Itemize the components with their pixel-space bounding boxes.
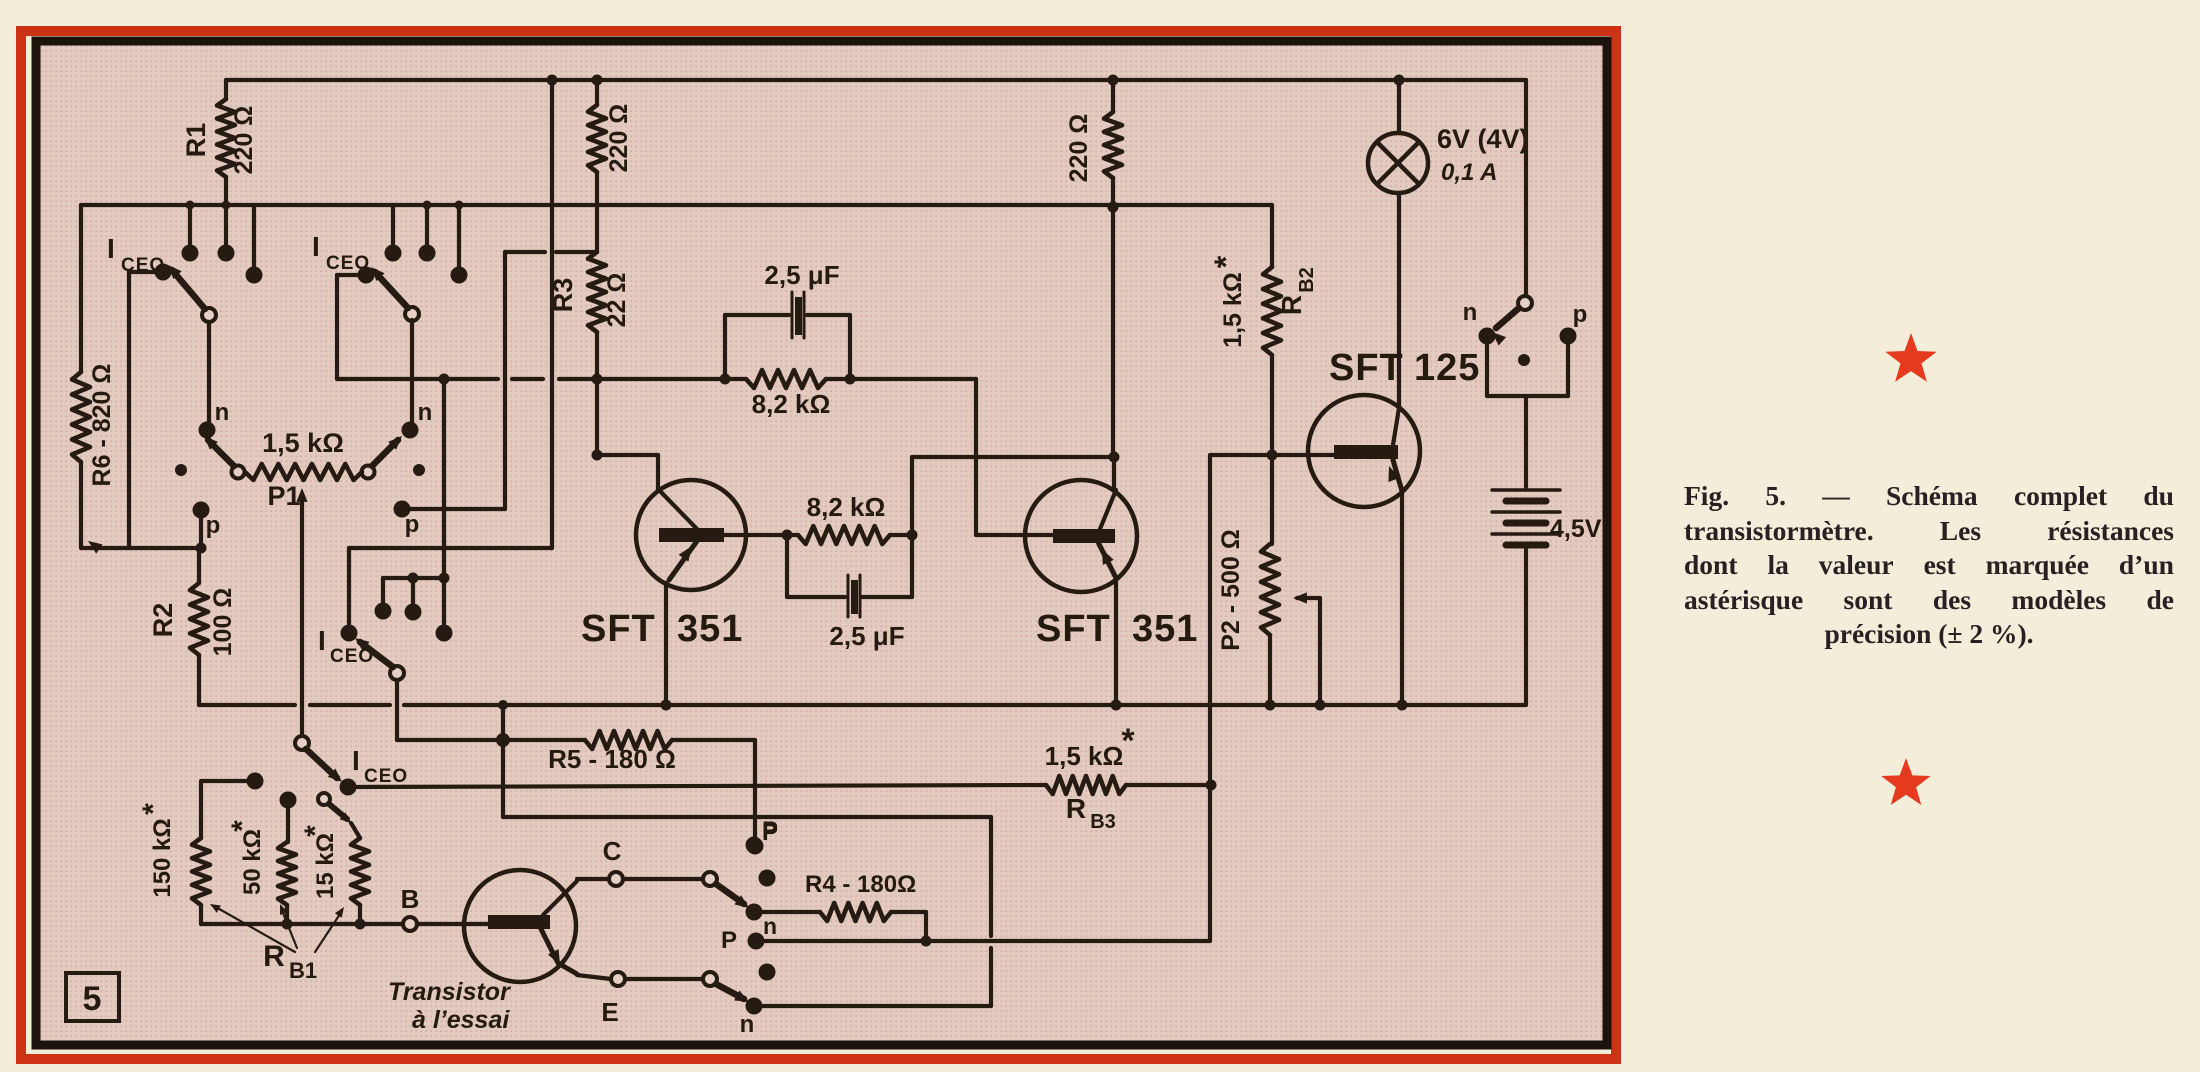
wire 220-2 top bbox=[595, 80, 599, 105]
wire x1211 riser bbox=[1208, 455, 1212, 941]
transistor SFT 351 second bbox=[1112, 457, 1116, 491]
arrowhead ICEO-4 bbox=[328, 769, 342, 783]
node T1 collector bbox=[592, 450, 603, 461]
svg-text:*: * bbox=[1121, 722, 1135, 760]
wire R6 bottom bbox=[79, 462, 83, 548]
svg-text:B1: B1 bbox=[289, 958, 317, 983]
node y457/T2 collector bbox=[1109, 452, 1120, 463]
halftone paper panel bbox=[39, 44, 1605, 1043]
resistor R6 820 ohm bbox=[72, 372, 90, 462]
node cap branch left bbox=[720, 374, 731, 385]
lamp 6V 0.1A bbox=[1397, 80, 1401, 133]
wire n row to x991 bbox=[754, 1004, 991, 1008]
contact dot c bbox=[436, 625, 453, 642]
figure number box 5 bbox=[66, 973, 119, 1021]
switch pivot ICEO-2 bbox=[405, 307, 419, 321]
svg-text:100 Ω: 100 Ω bbox=[209, 588, 237, 657]
wire 150k bottom bbox=[199, 905, 203, 924]
wire P2 bottom bbox=[1268, 635, 1272, 705]
resistor R1 220 ohm bbox=[217, 99, 235, 177]
node stud on rail bbox=[222, 201, 231, 210]
wire pivot stem 2 bbox=[410, 320, 414, 424]
contact dot bbox=[419, 245, 436, 262]
node RB2/P2/base bbox=[1267, 450, 1278, 461]
svg-text:SFT: SFT bbox=[1329, 347, 1404, 389]
node T2 emitter rail bbox=[1111, 700, 1122, 711]
transistor SFT 351 first bbox=[597, 453, 658, 457]
node P2 wiper rail bbox=[1315, 700, 1326, 711]
resistor 220 ohm right bbox=[1104, 112, 1122, 178]
wire P2 wiper down bbox=[1318, 598, 1322, 705]
svg-text:SFT: SFT bbox=[1036, 608, 1111, 650]
capacitor 2.5uF first branch bbox=[723, 315, 727, 379]
svg-text:R: R bbox=[1066, 793, 1086, 824]
wire T1 emitter down bbox=[664, 583, 668, 705]
wire y457 cross-coupling bbox=[912, 455, 1114, 459]
svg-text:CEO: CEO bbox=[330, 646, 374, 667]
svg-text:6V (4V): 6V (4V) bbox=[1437, 124, 1529, 154]
wire C to switch bbox=[623, 877, 703, 881]
contact dot bbox=[218, 245, 235, 262]
contact dot right spare bbox=[413, 464, 425, 476]
wire R1 top bbox=[224, 80, 228, 99]
switch pivot E bbox=[703, 972, 717, 986]
svg-text:n: n bbox=[1463, 299, 1478, 326]
lamp cross a bbox=[1377, 142, 1419, 184]
switch arm np bbox=[1496, 308, 1519, 328]
wire to C terminal bbox=[577, 877, 609, 881]
node rail1 lamp bbox=[1394, 75, 1405, 86]
wire x976 to T2 base bbox=[974, 379, 978, 535]
svg-text:R1: R1 bbox=[181, 123, 211, 158]
svg-text:15 kΩ: 15 kΩ bbox=[312, 833, 339, 899]
wire R6 bottom horizontal bbox=[81, 546, 201, 550]
red star top bbox=[1885, 333, 1936, 382]
arrowhead arm E bbox=[734, 991, 749, 1003]
switch arm B-right bbox=[372, 440, 398, 466]
svg-text:220 Ω: 220 Ω bbox=[1065, 114, 1093, 183]
switch arm ICEO-1 bbox=[172, 270, 205, 309]
leader arrow 50k bbox=[280, 904, 288, 915]
node cap branch right bbox=[845, 374, 856, 385]
svg-text:I: I bbox=[318, 625, 326, 656]
wire RB3 right bbox=[1126, 783, 1211, 787]
contact dot bbox=[451, 267, 468, 284]
switch arm RB1 bbox=[329, 804, 347, 819]
svg-text:5: 5 bbox=[83, 980, 102, 1018]
wire RB2 top bbox=[1270, 205, 1274, 267]
svg-text:C: C bbox=[603, 836, 622, 866]
svg-text:à l’essai: à l’essai bbox=[412, 1006, 510, 1034]
resistor 15k RB1 bbox=[351, 838, 369, 905]
terminal E bbox=[611, 972, 625, 986]
svg-text:B3: B3 bbox=[1090, 811, 1116, 833]
resistor 8.2k second bbox=[798, 526, 890, 544]
contact dot left spare bbox=[175, 464, 187, 476]
svg-text:n: n bbox=[740, 1011, 755, 1038]
node rail1 x1113 bbox=[1108, 75, 1119, 86]
resistor RB2 1.5k bbox=[1263, 267, 1281, 355]
wire y379 cross-coupling bbox=[337, 377, 498, 381]
wiper arrow P2 bbox=[1293, 592, 1307, 603]
wire to E terminal bbox=[577, 975, 611, 979]
contact dot 50k bbox=[280, 792, 297, 809]
svg-text:p: p bbox=[206, 512, 221, 539]
wire T2 base bbox=[976, 533, 1056, 537]
svg-text:351: 351 bbox=[1132, 608, 1198, 650]
wire n to R4 bbox=[754, 910, 820, 914]
arrowhead ICEO-1 bbox=[168, 265, 182, 279]
wire stud b bbox=[411, 578, 415, 606]
terminal C bbox=[609, 872, 623, 886]
wire second rail bbox=[81, 203, 1272, 207]
wire 15k bottom bbox=[358, 905, 362, 924]
wire n bracket bbox=[1485, 342, 1489, 396]
contact dot a bbox=[375, 603, 392, 620]
svg-text:p: p bbox=[1573, 301, 1588, 328]
contact dot bbox=[385, 245, 402, 262]
wire y252 to R3 b bbox=[556, 250, 597, 254]
collector line test transistor bbox=[543, 881, 577, 915]
svg-text:B: B bbox=[401, 884, 420, 914]
node R4 on P row bbox=[921, 936, 932, 947]
wire pivot stem 1 bbox=[207, 322, 211, 424]
wire R2 bottom bbox=[197, 655, 201, 705]
svg-text:R3: R3 bbox=[548, 278, 578, 313]
resistor 8.2k first bbox=[746, 370, 826, 388]
svg-text:P: P bbox=[721, 927, 737, 954]
wire np bracket bottom bbox=[1487, 394, 1568, 398]
capacitor C2 2.5uF branch bbox=[785, 535, 789, 597]
wire 50k bottom bbox=[285, 905, 289, 924]
wire contact stud bbox=[224, 205, 228, 247]
svg-text:1,5 kΩ: 1,5 kΩ bbox=[262, 428, 344, 458]
emitter arrow T1 bbox=[679, 546, 692, 562]
arrowhead RB1 bbox=[340, 812, 351, 823]
potentiometer P2 500 ohm bbox=[1261, 544, 1279, 635]
wire R6 top bbox=[79, 205, 83, 372]
svg-text:*: * bbox=[137, 803, 170, 815]
node 15k bottom bbox=[355, 919, 366, 930]
svg-text:CEO: CEO bbox=[364, 766, 408, 787]
svg-text:I: I bbox=[107, 233, 115, 264]
svg-text:0,1 A: 0,1 A bbox=[1441, 159, 1497, 186]
svg-text:R2: R2 bbox=[148, 603, 178, 638]
center dot np bbox=[1518, 354, 1530, 366]
emitter internal SFT125 bbox=[1393, 460, 1402, 491]
contact p left switch bbox=[193, 502, 210, 519]
wire B to base bbox=[417, 922, 491, 926]
svg-text:CEO: CEO bbox=[326, 253, 370, 274]
contact P upper bbox=[747, 838, 764, 855]
node SFT125 emitter rail bbox=[1397, 700, 1408, 711]
svg-text:R4 - 180Ω: R4 - 180Ω bbox=[805, 871, 916, 898]
arrowhead np arm bbox=[1492, 332, 1506, 346]
contact n of C switch bbox=[746, 904, 763, 921]
wire SFT125 emitter down bbox=[1400, 493, 1404, 705]
switch pivot np bbox=[1518, 296, 1532, 310]
wire ICEO-1 down to R6 line bbox=[127, 272, 131, 548]
wire p bracket bbox=[1566, 342, 1570, 396]
node 50k bottom bbox=[282, 919, 293, 930]
emitter arrow test transistor bbox=[548, 949, 560, 965]
resistor R2 100 ohm bbox=[190, 583, 208, 655]
svg-text:*: * bbox=[226, 820, 259, 832]
resistor 150k RB1 bbox=[192, 838, 210, 905]
svg-text:SFT: SFT bbox=[581, 608, 656, 650]
svg-text:P2 - 500 Ω: P2 - 500 Ω bbox=[1217, 529, 1245, 651]
svg-text:125: 125 bbox=[1414, 347, 1480, 389]
svg-text:2,5 μF: 2,5 μF bbox=[764, 260, 839, 290]
node bus b bbox=[408, 573, 419, 584]
contact dot b bbox=[405, 604, 422, 621]
svg-text:R: R bbox=[1276, 295, 1307, 315]
wire contact bus y578 bbox=[383, 576, 445, 580]
wire riser x505 bbox=[503, 252, 507, 509]
contact dot bbox=[182, 245, 199, 262]
switch pivot ICEO-1 bbox=[202, 308, 216, 322]
figure caption bbox=[1684, 479, 2174, 652]
contact dot ICEO-3 bbox=[341, 625, 358, 642]
wire ICEO-2 down bbox=[335, 275, 339, 379]
svg-text:150 kΩ: 150 kΩ bbox=[149, 818, 176, 897]
node base/cap branch bbox=[782, 530, 793, 541]
wire ICEO-3 pivot down bbox=[395, 680, 399, 740]
wire E to switch bbox=[625, 977, 703, 981]
wire ICEO-4 to RB3 bbox=[348, 785, 1046, 787]
svg-text:R6 - 820 Ω: R6 - 820 Ω bbox=[88, 364, 116, 487]
svg-text:R5 - 180 Ω: R5 - 180 Ω bbox=[548, 744, 676, 774]
node rail2 x1113 bbox=[1108, 202, 1119, 213]
wire p right to riser bbox=[402, 507, 505, 511]
wire R5 down to P bbox=[753, 740, 757, 840]
wire top supply rail bbox=[226, 78, 1526, 82]
wire y817 bbox=[503, 815, 991, 819]
svg-text:4,5V: 4,5V bbox=[1550, 515, 1602, 543]
wire x503 down bbox=[501, 740, 505, 817]
wire base row bbox=[201, 922, 403, 926]
svg-text:Transistor: Transistor bbox=[388, 978, 511, 1006]
node R6/R2 junction bbox=[196, 543, 207, 554]
svg-text:220 Ω: 220 Ω bbox=[230, 106, 258, 175]
lamp cross b bbox=[1377, 142, 1419, 184]
wire T1 base right bbox=[724, 533, 798, 537]
wire rail tap x503 bbox=[501, 705, 505, 740]
emitter internal T1 bbox=[669, 541, 697, 580]
switch arm C bbox=[716, 884, 744, 904]
battery 4.5V bbox=[1492, 488, 1560, 492]
wire P row bbox=[756, 939, 1210, 943]
node rail2 bbox=[1108, 202, 1119, 213]
collector internal T1 bbox=[660, 491, 697, 529]
wire R5 right bbox=[672, 738, 755, 742]
svg-text:22 Ω: 22 Ω bbox=[603, 273, 631, 328]
terminal B bbox=[403, 917, 417, 931]
contact n np bbox=[1479, 328, 1496, 345]
collector internal SFT125 bbox=[1393, 408, 1399, 445]
resistor RB3 1.5k bbox=[1046, 776, 1126, 794]
collector internal T2 bbox=[1100, 490, 1116, 529]
svg-text:2,5 μF: 2,5 μF bbox=[829, 621, 904, 651]
node P2 rail bbox=[1265, 700, 1276, 711]
wire down to ICEO-3 contact bbox=[347, 548, 351, 627]
wire contact stud bbox=[391, 205, 395, 247]
contact n left bbox=[199, 422, 216, 439]
wiper arrow at R6 corner bbox=[88, 541, 103, 554]
node stud on rail bbox=[455, 201, 464, 210]
wire T2 emitter down bbox=[1114, 580, 1118, 705]
switch arm ICEO-2 bbox=[375, 272, 408, 308]
arrowhead arm B-right bbox=[388, 436, 402, 450]
node riser top bbox=[439, 374, 450, 385]
emitter line test transistor bbox=[541, 929, 557, 961]
svg-text:351: 351 bbox=[677, 608, 743, 650]
svg-text:p: p bbox=[405, 511, 420, 538]
svg-text:8,2 kΩ: 8,2 kΩ bbox=[807, 492, 886, 522]
emitter arrow T2 bbox=[1102, 549, 1114, 565]
wire ICEO-1 contact left bbox=[129, 270, 163, 274]
node rail x503 bbox=[498, 700, 508, 710]
terminal P1 right bbox=[362, 466, 375, 479]
contact dot ICEO-2 bbox=[358, 267, 375, 284]
wire y548 to ICEO-3 bbox=[349, 546, 552, 550]
wire 220-3 down bbox=[1111, 178, 1115, 457]
svg-text:I: I bbox=[352, 745, 360, 776]
contact n right bbox=[402, 422, 419, 439]
leader arrows RB1 bbox=[214, 906, 295, 952]
switch pivot ICEO-3 bbox=[390, 666, 404, 680]
node rail1 x597 bbox=[592, 75, 603, 86]
arrowhead ICEO-3 bbox=[355, 638, 370, 651]
svg-text:*: * bbox=[1208, 255, 1244, 268]
contact n of E switch bbox=[746, 998, 763, 1015]
switch pivot RB1 bbox=[318, 793, 330, 805]
contact P row dot bbox=[748, 933, 765, 950]
emitter internal T2 bbox=[1098, 542, 1116, 578]
transistor under test bbox=[464, 870, 576, 982]
svg-text:B2: B2 bbox=[1296, 267, 1318, 293]
wire base SFT125 bbox=[1211, 453, 1334, 457]
wire 220-3 top bbox=[1111, 80, 1115, 112]
svg-text:*: * bbox=[299, 825, 332, 837]
wire x991 down b bbox=[989, 948, 993, 1006]
wire R5 left bbox=[503, 738, 585, 742]
contact P of C switch bbox=[746, 837, 763, 854]
contact dot bbox=[246, 267, 263, 284]
resistor R5 180 ohm bbox=[585, 731, 672, 749]
wire R2 top bbox=[197, 548, 201, 583]
svg-text:1,5 kΩ: 1,5 kΩ bbox=[1045, 741, 1124, 771]
wire P2 top bbox=[1270, 455, 1274, 544]
svg-text:50 kΩ: 50 kΩ bbox=[239, 829, 266, 895]
wire bottom emitter rail bbox=[199, 703, 295, 707]
node bus c bbox=[439, 573, 450, 584]
wire stud a bbox=[381, 578, 385, 605]
node rail1 x552 bbox=[547, 75, 558, 86]
wire 50k top bbox=[286, 800, 290, 842]
wire y252 to R3 a bbox=[505, 250, 545, 254]
node T1 emitter rail bbox=[661, 700, 672, 711]
wire x912 up bbox=[910, 457, 914, 535]
wire R4 right bbox=[891, 910, 926, 914]
red frame accent bbox=[21, 31, 1616, 1059]
capacitor C1 2.5uF plates bbox=[791, 292, 794, 338]
wire lamp to SFT125 bbox=[1397, 193, 1401, 407]
switch arm E bbox=[716, 984, 744, 999]
wire riser x444 bbox=[442, 379, 446, 627]
black border frame bbox=[36, 41, 1607, 1045]
contact dot C spare bbox=[759, 870, 776, 887]
potentiometer P1 1.5k bbox=[245, 464, 362, 480]
wire R1 bottom bbox=[224, 177, 228, 205]
arrowhead arm C bbox=[734, 895, 749, 908]
wire ICEO-2 contact left bbox=[337, 273, 366, 277]
resistor 220 ohm mid bbox=[588, 105, 606, 172]
wire P2 wiper bbox=[1297, 596, 1320, 600]
node stud on rail bbox=[423, 201, 432, 210]
arrowhead arm B-left bbox=[204, 436, 218, 450]
wire 150k top bbox=[202, 779, 255, 783]
wire R3 bottom bbox=[595, 332, 599, 455]
emitter arrow SFT125 bbox=[1388, 466, 1399, 482]
svg-text:P1: P1 bbox=[267, 481, 300, 511]
svg-text:8,2 kΩ: 8,2 kΩ bbox=[752, 389, 831, 419]
wire R4 drop bbox=[924, 912, 928, 938]
wire rail to np pivot bbox=[1524, 80, 1528, 297]
svg-text:I: I bbox=[312, 231, 320, 262]
wire between 220 and R3 bbox=[595, 172, 599, 252]
switch pivot ICEO-4 bbox=[295, 736, 309, 750]
leader arrow 15k bbox=[335, 907, 344, 918]
svg-text:220 Ω: 220 Ω bbox=[605, 104, 633, 173]
wire column x552 bbox=[550, 80, 554, 548]
node stud on rail bbox=[186, 201, 195, 210]
contact p right switch bbox=[394, 501, 411, 518]
wiper arrow P1 bbox=[296, 488, 307, 502]
svg-text:n: n bbox=[215, 399, 230, 426]
contact p np bbox=[1560, 328, 1577, 345]
resistor R4 180 ohm bbox=[820, 903, 891, 921]
wire RB2 bottom bbox=[1270, 355, 1274, 455]
wire P1 wiper down bbox=[300, 496, 304, 737]
wire np to battery bbox=[1524, 396, 1528, 487]
contact dot ICEO-4 bbox=[340, 779, 357, 796]
wire ICEO-3 elbow to R5 node bbox=[397, 738, 503, 742]
wire contact stud bbox=[425, 205, 429, 247]
switch pivot C bbox=[703, 872, 717, 886]
node RB3 x1211 bbox=[1206, 780, 1217, 791]
svg-text:1,5 kΩ: 1,5 kΩ bbox=[1219, 272, 1247, 348]
svg-text:n: n bbox=[763, 913, 777, 939]
arrowhead ICEO-2 bbox=[371, 267, 385, 281]
transistor SFT 125 bbox=[1308, 395, 1420, 507]
wire contact stud bbox=[188, 205, 192, 247]
wire x991 down a bbox=[989, 817, 993, 936]
contact dot ICEO-1 bbox=[155, 264, 172, 281]
leader arrow 150k bbox=[210, 904, 221, 913]
wire 15k top bbox=[351, 823, 360, 838]
wire 150k drop bbox=[199, 781, 203, 838]
switch arm ICEO-3 bbox=[360, 642, 393, 667]
contact dot E spare bbox=[759, 964, 776, 981]
terminal P1 left bbox=[232, 466, 245, 479]
wire battery minus down bbox=[1524, 545, 1528, 705]
wire contact stud bbox=[252, 205, 256, 269]
wire p to junction bbox=[199, 510, 203, 548]
svg-text:R: R bbox=[263, 940, 285, 973]
switch arm B-left bbox=[208, 440, 234, 466]
resistor R3 22 ohm bbox=[588, 252, 606, 332]
